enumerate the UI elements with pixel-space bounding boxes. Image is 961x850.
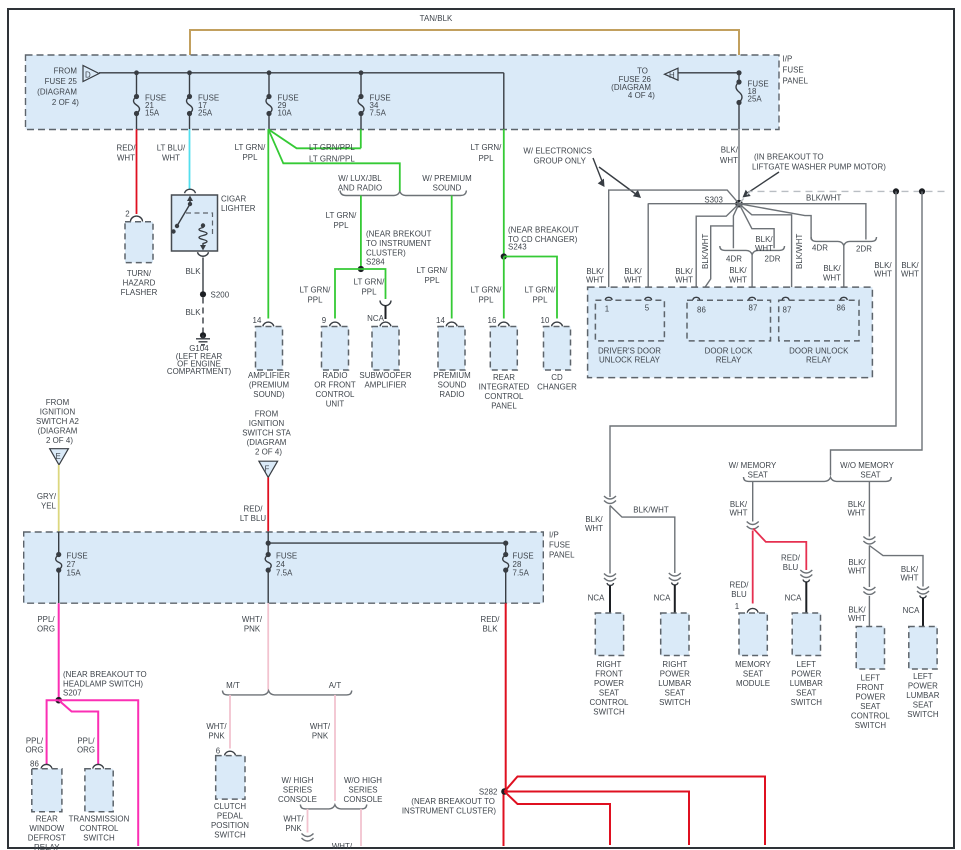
- connector radio pin 9: [330, 322, 341, 326]
- wire BLK/WHT w/memory branch: [752, 481, 754, 521]
- svg-text:CONTROL: CONTROL: [80, 824, 119, 833]
- svg-text:LEFT: LEFT: [861, 674, 881, 683]
- wire PPL/ORG S207 to rear window defrost relay: [47, 700, 59, 764]
- svg-text:(DIAGRAM: (DIAGRAM: [38, 427, 78, 436]
- svg-text:RADIO: RADIO: [439, 390, 464, 399]
- inline connector left front seat: [863, 587, 875, 595]
- wire RED S282 branch upper: [505, 777, 766, 846]
- svg-text:LIFTGATE WASHER PUMP MOTOR): LIFTGATE WASHER PUMP MOTOR): [752, 163, 886, 172]
- cigar lighter switch contacts: [177, 198, 190, 226]
- svg-text:SWITCH STA: SWITCH STA: [242, 429, 291, 438]
- svg-text:D: D: [85, 71, 91, 80]
- fuse 18 25A: [738, 73, 740, 82]
- svg-text:LUMBAR: LUMBAR: [790, 679, 823, 688]
- svg-text:2DR: 2DR: [856, 245, 872, 254]
- svg-text:86: 86: [30, 760, 39, 769]
- wire LT GRN/PPL brace left branch to S284: [360, 196, 362, 270]
- clutch pedal position switch box: [216, 756, 245, 800]
- svg-text:WHT: WHT: [624, 276, 642, 285]
- svg-text:MEMORY: MEMORY: [735, 660, 771, 669]
- inline connector memory seat: [747, 522, 759, 530]
- svg-text:CONSOLE: CONSOLE: [278, 795, 317, 804]
- svg-text:COMPARTMENT): COMPARTMENT): [167, 367, 232, 376]
- svg-text:NCA: NCA: [588, 594, 605, 603]
- cigar lighter box: [185, 189, 196, 193]
- svg-text:WHT: WHT: [586, 276, 604, 285]
- svg-text:BLK: BLK: [482, 625, 498, 634]
- wire LT GRN/PPL fuse29 to amplifier: [267, 129, 269, 318]
- svg-text:25A: 25A: [748, 95, 763, 104]
- connector amplifier pin 14: [263, 322, 274, 326]
- wire LT GRN/PPL unfused to S243: [503, 129, 505, 256]
- svg-text:4DR: 4DR: [726, 255, 742, 264]
- svg-text:16: 16: [488, 316, 497, 325]
- svg-text:CONTROL: CONTROL: [316, 390, 355, 399]
- svg-text:RIGHT: RIGHT: [597, 660, 622, 669]
- svg-text:SERIES: SERIES: [283, 786, 312, 795]
- svg-text:PPL: PPL: [361, 288, 377, 297]
- svg-text:SEAT: SEAT: [665, 689, 685, 698]
- svg-text:PPL: PPL: [478, 154, 494, 163]
- svg-text:REAR: REAR: [493, 373, 515, 382]
- svg-text:15A: 15A: [145, 109, 160, 118]
- svg-text:SEAT: SEAT: [599, 689, 619, 698]
- svg-text:SOUND: SOUND: [433, 184, 462, 193]
- svg-text:PPL: PPL: [307, 296, 323, 305]
- svg-text:POWER: POWER: [660, 670, 690, 679]
- svg-text:W/O HIGH: W/O HIGH: [344, 776, 382, 785]
- svg-text:POWER: POWER: [908, 682, 938, 691]
- svg-text:CONTROL: CONTROL: [485, 392, 524, 401]
- wire door lock brace to pin 87: [751, 255, 753, 301]
- connector NCA subwoofer (not attached): [380, 301, 391, 306]
- svg-text:FUSE: FUSE: [549, 541, 570, 550]
- node S284: [358, 266, 364, 272]
- svg-text:BLK/: BLK/: [823, 264, 841, 273]
- connector turn/hazard flasher pin 2: [131, 216, 143, 221]
- svg-text:PANEL: PANEL: [783, 77, 809, 86]
- wire H to fuse 18 node: [678, 72, 739, 74]
- svg-text:SEAT: SEAT: [743, 670, 763, 679]
- connector CD changer pin 10: [552, 322, 563, 326]
- svg-text:I/P: I/P: [783, 55, 793, 64]
- svg-text:(NEAR BREAKOUT: (NEAR BREAKOUT: [508, 226, 579, 235]
- svg-text:2DR: 2DR: [765, 255, 781, 264]
- svg-text:TO INSTRUMENT: TO INSTRUMENT: [366, 239, 432, 248]
- svg-text:E: E: [56, 452, 61, 461]
- arrow E from ignition switch A2: [50, 449, 69, 465]
- svg-text:FROM: FROM: [255, 410, 278, 419]
- svg-text:GRY/: GRY/: [37, 492, 57, 501]
- svg-text:SWITCH: SWITCH: [855, 721, 887, 730]
- svg-text:BLK/: BLK/: [729, 266, 747, 275]
- svg-text:14: 14: [436, 316, 445, 325]
- svg-text:H: H: [669, 71, 675, 80]
- wire LT GRN/PPL S243 to rear integrated control panel: [503, 257, 505, 319]
- relay module outer box: [588, 287, 873, 378]
- svg-text:UNLOCK RELAY: UNLOCK RELAY: [599, 356, 661, 365]
- connector rear integrated control panel pin 16: [498, 322, 509, 326]
- svg-text:TAN/BLK: TAN/BLK: [420, 14, 453, 23]
- svg-text:86: 86: [837, 304, 846, 313]
- brace M/T vs A/T: [223, 691, 352, 695]
- svg-text:PPL: PPL: [532, 296, 548, 305]
- svg-text:BLU: BLU: [731, 590, 747, 599]
- svg-text:BLK/: BLK/: [585, 515, 603, 524]
- svg-text:W/ HIGH: W/ HIGH: [282, 776, 314, 785]
- svg-text:1: 1: [735, 602, 739, 611]
- fuse 17 25A: [189, 73, 191, 97]
- svg-text:TURN/: TURN/: [127, 269, 152, 278]
- left power lumbar seat switch box (far right): [909, 627, 937, 670]
- svg-text:A/T: A/T: [329, 681, 342, 690]
- connector clutch pedal position switch pin 6: [225, 751, 236, 755]
- right power lumbar seat switch box: [661, 613, 689, 656]
- wire BLK S200 to ground (dashed): [202, 298, 204, 334]
- wire LT GRN/PPL fuse29 branch to fuse34 drop: [268, 129, 361, 148]
- svg-text:WHT/: WHT/: [283, 815, 304, 824]
- wire LT GRN/PPL S284 to radio pin 9: [335, 269, 361, 319]
- cigar lighter heating element: [201, 223, 205, 227]
- wire S303 to relay pin 1: [609, 190, 739, 296]
- amplifier (premium sound) box: [256, 327, 283, 371]
- wire LT GRN/PPL fuse29 branch to audio brace: [268, 129, 400, 191]
- turn/hazard flasher box: [125, 222, 153, 263]
- svg-text:SWITCH A2: SWITCH A2: [36, 417, 79, 426]
- svg-text:FRONT: FRONT: [857, 683, 885, 692]
- svg-text:WINDOW: WINDOW: [29, 824, 64, 833]
- svg-text:TRANSMISSION: TRANSMISSION: [69, 815, 130, 824]
- connector cigar lighter bottom: [198, 252, 209, 256]
- svg-text:WHT: WHT: [900, 574, 918, 583]
- wire RED/LT BLU F to fuse 24: [267, 477, 269, 532]
- svg-text:PPL/: PPL/: [26, 737, 44, 746]
- fuse 21 15A: [136, 73, 138, 97]
- svg-text:OR FRONT: OR FRONT: [314, 381, 356, 390]
- svg-text:LUMBAR: LUMBAR: [658, 679, 691, 688]
- svg-text:5: 5: [645, 304, 650, 313]
- wire S303 via 4DR tap to pin 86: [697, 204, 739, 300]
- fuse 28 7.5A: [505, 543, 507, 554]
- inline connector far right lumbar: [917, 587, 929, 595]
- svg-text:AMPLIFIER: AMPLIFIER: [248, 371, 290, 380]
- node bus taps: [134, 70, 139, 75]
- svg-text:(IN BREAKOUT TO: (IN BREAKOUT TO: [754, 153, 824, 162]
- svg-text:SWITCH: SWITCH: [659, 698, 691, 707]
- svg-text:PANEL: PANEL: [549, 551, 575, 560]
- svg-text:25A: 25A: [198, 109, 213, 118]
- svg-text:FROM: FROM: [46, 398, 69, 407]
- rear integrated control panel box: [490, 327, 517, 371]
- wire S303 to door lock relay pin 86: [696, 204, 739, 300]
- svg-text:SEAT: SEAT: [860, 702, 880, 711]
- stub NCA far right lumbar: [920, 596, 927, 598]
- svg-text:BLK: BLK: [185, 267, 201, 276]
- inline connector on seat feed: [604, 496, 616, 504]
- wire WHT/PNK console brace left branch: [307, 809, 309, 833]
- brace W/MEMORY vs W/O MEMORY seat: [744, 477, 892, 481]
- svg-text:LT GRN/PPL: LT GRN/PPL: [309, 143, 355, 152]
- svg-text:PPL/: PPL/: [77, 737, 95, 746]
- svg-text:LT GRN/: LT GRN/: [525, 286, 557, 295]
- svg-text:7.5A: 7.5A: [513, 569, 530, 578]
- stub NCA right front power seat control switch: [607, 583, 614, 585]
- svg-text:WHT: WHT: [117, 154, 135, 163]
- svg-text:MODULE: MODULE: [736, 679, 770, 688]
- inline connector w/o memory: [863, 537, 875, 545]
- brace 4DR/2DR door lock relay: [720, 246, 785, 255]
- svg-text:4 OF 4): 4 OF 4): [628, 91, 655, 100]
- svg-text:WHT: WHT: [847, 509, 865, 518]
- svg-text:SEAT: SEAT: [913, 701, 933, 710]
- wire internal bus fuse24 to fuse28: [268, 542, 506, 544]
- I/P fuse panel (lower) box: [24, 532, 544, 603]
- connector rear window defrost relay pin 86: [41, 764, 52, 768]
- wire BLK/WHT straight to left front seat switch: [868, 546, 870, 588]
- svg-text:86: 86: [697, 306, 706, 315]
- fuse 24 7.5A: [267, 532, 269, 555]
- svg-text:RED/: RED/: [243, 505, 263, 514]
- brace 4DR/2DR door unlock relay: [811, 237, 876, 246]
- svg-text:FUSE 25: FUSE 25: [45, 77, 78, 86]
- svg-text:HAZARD: HAZARD: [123, 279, 156, 288]
- right front power seat control switch box: [595, 613, 623, 656]
- fuse 29 10A: [268, 73, 270, 97]
- svg-text:HEADLAMP SWITCH): HEADLAMP SWITCH): [63, 680, 143, 689]
- svg-text:SEAT: SEAT: [796, 689, 816, 698]
- svg-text:LEFT: LEFT: [797, 660, 817, 669]
- wire WHT/PNK fuse24 to M/T brace: [267, 603, 269, 691]
- svg-text:PEDAL: PEDAL: [217, 812, 244, 821]
- svg-text:CLUTCH: CLUTCH: [214, 802, 247, 811]
- svg-text:WHT: WHT: [729, 276, 747, 285]
- svg-text:F: F: [265, 465, 270, 474]
- wire LT GRN/PPL premium sound branch: [451, 196, 453, 319]
- svg-text:UNIT: UNIT: [326, 400, 345, 409]
- svg-text:87: 87: [783, 306, 792, 315]
- fuse 34 7.5A: [360, 73, 362, 97]
- connector memory seat module pin 1: [747, 608, 758, 612]
- svg-text:LT GRN/: LT GRN/: [354, 278, 386, 287]
- svg-text:WHT/: WHT/: [310, 722, 331, 731]
- svg-text:2 OF 4): 2 OF 4): [52, 98, 79, 107]
- svg-text:WHT/: WHT/: [242, 615, 263, 624]
- wire WHT/PNK M/T branch to clutch pedal position switch: [229, 695, 231, 749]
- brace W/HIGH vs W/O HIGH series console: [300, 805, 366, 809]
- svg-text:(DIAGRAM: (DIAGRAM: [37, 88, 77, 97]
- inline connector left power lumbar: [800, 570, 812, 578]
- svg-text:S284: S284: [366, 258, 385, 267]
- svg-text:AMPLIFIER: AMPLIFIER: [364, 381, 406, 390]
- svg-text:7.5A: 7.5A: [370, 109, 387, 118]
- svg-text:CLUSTER): CLUSTER): [366, 249, 406, 258]
- svg-text:FLASHER: FLASHER: [121, 288, 158, 297]
- wire BLK/WHT into left front seat switch box: [868, 596, 870, 627]
- svg-text:4DR: 4DR: [812, 244, 828, 253]
- svg-text:W/O MEMORY: W/O MEMORY: [840, 461, 895, 470]
- svg-text:CONSOLE: CONSOLE: [344, 795, 383, 804]
- svg-text:WHT: WHT: [848, 614, 866, 623]
- svg-text:INSTRUMENT CLUSTER): INSTRUMENT CLUSTER): [402, 807, 497, 816]
- svg-text:SERIES: SERIES: [348, 786, 377, 795]
- wire door unlock brace to pin 86: [843, 246, 845, 301]
- node S243: [501, 253, 507, 259]
- svg-text:WHT/: WHT/: [332, 842, 353, 850]
- svg-text:WHT: WHT: [848, 567, 866, 576]
- node S207: [55, 697, 62, 704]
- wire BLK/WHT dashed liftgate washer branch: [739, 191, 948, 203]
- svg-text:1: 1: [605, 305, 609, 314]
- left power lumbar seat switch box (middle): [792, 613, 820, 656]
- svg-text:WHT: WHT: [823, 274, 841, 283]
- svg-text:W/ LUX/JBL: W/ LUX/JBL: [338, 174, 382, 183]
- svg-text:(DIAGRAM: (DIAGRAM: [247, 438, 287, 447]
- wire RED/WHT fuse21 to flasher: [136, 129, 138, 214]
- node dashed tap 2: [919, 188, 925, 194]
- svg-text:WHT: WHT: [675, 276, 693, 285]
- wire PPL/ORG S207 to bottom edge: [59, 700, 139, 846]
- svg-text:WHT: WHT: [720, 156, 738, 165]
- svg-text:SOUND: SOUND: [438, 381, 467, 390]
- wire BLK/WHT w/o memory branch: [868, 481, 870, 536]
- svg-text:PPL: PPL: [478, 296, 494, 305]
- svg-text:14: 14: [253, 316, 262, 325]
- memory seat module box: [739, 613, 767, 656]
- radio or front control unit box: [322, 327, 349, 371]
- svg-text:LEFT: LEFT: [913, 672, 933, 681]
- svg-text:YEL: YEL: [41, 502, 57, 511]
- svg-text:POWER: POWER: [594, 679, 624, 688]
- CD changer box: [544, 327, 571, 371]
- svg-text:LT BLU: LT BLU: [240, 514, 267, 523]
- driver's door unlock relay box: [595, 300, 664, 341]
- svg-text:LT GRN/: LT GRN/: [300, 286, 332, 295]
- svg-text:LUMBAR: LUMBAR: [906, 691, 939, 700]
- svg-text:WHT: WHT: [585, 524, 603, 533]
- svg-text:FRONT: FRONT: [595, 670, 623, 679]
- svg-text:NCA: NCA: [785, 594, 802, 603]
- svg-text:SWITCH: SWITCH: [83, 834, 115, 843]
- svg-text:S282: S282: [479, 788, 498, 797]
- brace W/LUX-JBL vs W/PREMIUM split: [340, 191, 466, 196]
- svg-text:SWITCH: SWITCH: [791, 698, 823, 707]
- svg-text:POWER: POWER: [855, 693, 885, 702]
- svg-text:LIGHTER: LIGHTER: [221, 204, 256, 213]
- svg-text:PPL: PPL: [242, 153, 258, 162]
- svg-text:SEAT: SEAT: [860, 471, 880, 480]
- svg-text:RADIO: RADIO: [322, 371, 347, 380]
- wire BLK/WHT fuse18 to S303: [738, 129, 740, 204]
- svg-text:CIGAR: CIGAR: [221, 195, 246, 204]
- svg-text:PNK: PNK: [244, 625, 261, 634]
- svg-text:ORG: ORG: [77, 746, 95, 755]
- svg-text:LT GRN/: LT GRN/: [471, 143, 503, 152]
- svg-text:RED/: RED/: [729, 581, 749, 590]
- wire BLK/WHT dashed tap2 down to memory seat brace: [831, 191, 923, 475]
- stub NCA right power lumbar seat switch: [672, 583, 679, 585]
- svg-text:CONTROL: CONTROL: [590, 698, 629, 707]
- I/P fuse panel (upper) box: [26, 55, 780, 130]
- svg-text:WHT: WHT: [755, 244, 773, 253]
- svg-text:2: 2: [125, 210, 129, 219]
- svg-text:RED/: RED/: [480, 615, 500, 624]
- svg-text:DOOR UNLOCK: DOOR UNLOCK: [789, 347, 849, 356]
- wire RED S282 branch lower: [505, 792, 611, 846]
- connector transmission control switch: [93, 764, 104, 768]
- svg-text:CONTROL: CONTROL: [851, 712, 890, 721]
- svg-text:S207: S207: [63, 689, 82, 698]
- svg-text:IGNITION: IGNITION: [249, 419, 285, 428]
- wire S303 to door unlock relay pin 87: [739, 204, 792, 300]
- svg-text:FROM: FROM: [54, 67, 77, 76]
- svg-text:SWITCH: SWITCH: [214, 831, 246, 840]
- annotation arrow to S303: [746, 172, 779, 194]
- svg-text:W/ PREMIUM: W/ PREMIUM: [422, 174, 472, 183]
- svg-text:M/T: M/T: [226, 681, 240, 690]
- svg-text:87: 87: [749, 304, 758, 313]
- wire BLK cigar lighter to S200: [202, 258, 204, 295]
- svg-text:10A: 10A: [278, 109, 293, 118]
- svg-text:BLK/: BLK/: [721, 146, 739, 155]
- svg-text:POWER: POWER: [791, 670, 821, 679]
- node dashed tap 1: [893, 188, 899, 194]
- wire GRY/YEL E to fuse 27: [58, 465, 60, 532]
- wire PPL/ORG fuse27 to S207: [58, 603, 60, 700]
- arrow F from ignition switch STA: [259, 461, 278, 477]
- wire RED/BLU branch to left power lumbar: [753, 529, 806, 571]
- wire PPL/ORG S207 to transmission control switch: [59, 700, 98, 764]
- wire BLK/WHT dashed tap1 down and across to seat feed: [610, 191, 896, 497]
- svg-text:2 OF 4): 2 OF 4): [255, 448, 282, 457]
- svg-text:BLK/WHT: BLK/WHT: [795, 233, 804, 269]
- wire S303 steep to door lock 2DR tap: [739, 204, 774, 249]
- svg-text:(NEAR BREKOUT: (NEAR BREKOUT: [366, 230, 432, 239]
- svg-text:RELAY: RELAY: [716, 356, 742, 365]
- connector premium sound radio pin 14: [446, 322, 457, 326]
- svg-text:7.5A: 7.5A: [276, 569, 293, 578]
- door unlock relay box: [779, 300, 859, 341]
- svg-text:10: 10: [541, 316, 550, 325]
- svg-text:NCA: NCA: [903, 606, 920, 615]
- svg-text:ORG: ORG: [25, 746, 43, 755]
- annotation arrow 2 to pin-5 wire: [599, 167, 635, 194]
- svg-text:BLK: BLK: [185, 308, 201, 317]
- svg-text:6: 6: [216, 747, 221, 756]
- svg-text:SEAT: SEAT: [748, 471, 768, 480]
- svg-text:15A: 15A: [67, 569, 82, 578]
- svg-text:DOOR LOCK: DOOR LOCK: [705, 347, 753, 356]
- wire S303 to relay pin 5: [648, 203, 739, 296]
- svg-text:WHT/: WHT/: [206, 722, 227, 731]
- svg-text:WHT: WHT: [729, 509, 747, 518]
- svg-text:FUSE: FUSE: [783, 66, 804, 75]
- door lock relay box: [687, 300, 771, 341]
- inline connector right power lumbar: [669, 573, 681, 581]
- wire LT GRN/PPL S243 to CD changer: [504, 257, 557, 319]
- node S200: [200, 291, 206, 297]
- svg-text:PNK: PNK: [208, 732, 225, 741]
- wire LT GRN/PPL S284 to subwoofer NCA: [361, 269, 386, 299]
- svg-text:DRIVER'S DOOR: DRIVER'S DOOR: [598, 347, 661, 356]
- svg-text:(PREMIUM: (PREMIUM: [249, 381, 289, 390]
- svg-text:SWITCH: SWITCH: [593, 708, 625, 717]
- svg-text:PPL/: PPL/: [37, 615, 55, 624]
- svg-text:IGNITION: IGNITION: [40, 408, 76, 417]
- svg-text:WHT: WHT: [162, 154, 180, 163]
- wire BLK/WHT split to left lumbar (w/o memory): [869, 546, 923, 587]
- svg-text:PNK: PNK: [285, 824, 302, 833]
- svg-text:PANEL: PANEL: [491, 402, 517, 411]
